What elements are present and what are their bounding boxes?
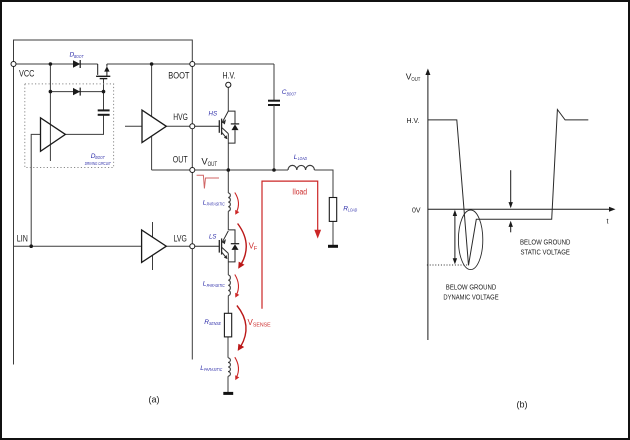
diode DBOOT — [73, 60, 80, 68]
diode D2 internal — [73, 88, 80, 96]
ground under RLOAD — [328, 245, 338, 248]
wire internal diode row — [50, 91, 103, 93]
svg-text:OUT: OUT — [411, 77, 420, 83]
svg-text:BOOT: BOOT — [95, 155, 105, 160]
wire RSENSE to Lpar3 — [227, 337, 229, 358]
static voltage lower arrow — [510, 225, 512, 233]
dbot driving circuit dashed box — [25, 84, 114, 168]
node dot OUT-HS — [227, 168, 231, 172]
red arc VSENSE at RSENSE — [237, 306, 246, 347]
wire LVG buffer supply stub — [152, 222, 154, 270]
wire HS source to OUT node — [227, 137, 229, 171]
svg-text:Iload: Iload — [292, 188, 307, 197]
node dot BOOT rail — [150, 62, 154, 66]
IC package outline (open bottom) — [14, 40, 193, 365]
red spike glyph at OUT — [197, 175, 219, 188]
inductor Lparasitic3 — [228, 358, 230, 376]
svg-text:0V: 0V — [412, 207, 421, 214]
terminal BOOT pin — [190, 62, 195, 67]
svg-text:BELOW GROUND: BELOW GROUND — [446, 285, 496, 292]
svg-text:SENSE: SENSE — [209, 321, 222, 326]
svg-text:LOAD: LOAD — [348, 208, 358, 213]
x axis — [428, 208, 613, 210]
y axis arrowhead — [425, 69, 430, 76]
wire capacitor C1 bottom to U1 output — [65, 115, 103, 134]
svg-text:H.V.: H.V. — [223, 71, 236, 81]
svg-text:LOAD: LOAD — [298, 156, 308, 161]
transistor HS — [192, 111, 235, 143]
terminal HVG pin — [190, 124, 195, 129]
svg-text:BOOT: BOOT — [168, 71, 190, 81]
wire H.V. terminal to HS drain — [227, 87, 229, 111]
ground under Lparasitic3 — [223, 392, 233, 395]
waveform trace — [428, 110, 588, 266]
dotted minimum level line — [427, 264, 469, 266]
svg-text:DYNAMIC VOLTAGE: DYNAMIC VOLTAGE — [443, 295, 498, 302]
red arc VF at LS — [238, 224, 247, 265]
dynamic voltage double arrow — [454, 212, 456, 262]
diode HS body — [231, 124, 239, 130]
terminal OUT pin — [190, 168, 195, 173]
svg-text:LVG: LVG — [174, 233, 187, 243]
wire HVG input stub — [125, 125, 142, 127]
wire HVG buffer supply rail BOOT to OUT — [151, 64, 153, 170]
wire OUT rail — [152, 169, 288, 171]
inductor Lparasitic1 — [228, 193, 230, 211]
wire Lpar2 to RSENSE — [227, 296, 229, 314]
svg-text:SENSE: SENSE — [253, 323, 271, 329]
resistor RSENSE — [224, 313, 231, 337]
wire LIN input riser to U1 — [31, 134, 40, 246]
svg-text:LIN: LIN — [17, 233, 28, 243]
svg-text:(b): (b) — [517, 400, 528, 410]
node dot gate junction — [102, 90, 106, 94]
wire CBOOT top drop — [273, 64, 275, 100]
wire LIN horizontal — [14, 245, 142, 247]
wire CBOOT bottom to OUT rail — [273, 105, 275, 170]
ellipse highlight on dip — [458, 210, 482, 270]
wire LVG output to pin — [166, 245, 192, 247]
wire OUT rail right of LLOAD — [314, 170, 333, 198]
red arc at Lparasitic1 — [235, 193, 239, 213]
svg-text:H.V.: H.V. — [407, 118, 420, 125]
op-amp U1 driving-circuit buffer — [41, 118, 66, 152]
wire Lpar3 to ground — [227, 376, 229, 392]
node dot diode row left — [49, 90, 53, 94]
terminal VCC — [11, 62, 16, 67]
svg-text:STATIC VOLTAGE: STATIC VOLTAGE — [521, 250, 571, 257]
svg-text:F: F — [254, 246, 258, 252]
svg-text:OUT: OUT — [208, 161, 218, 168]
svg-text:HS: HS — [209, 111, 218, 118]
svg-text:PARASITIC: PARASITIC — [207, 283, 226, 288]
wire node to capacitor C1 top — [103, 92, 105, 110]
wire VCC branch down to internal diode — [49, 64, 51, 92]
wire OUT node down to Lpar1 — [227, 170, 229, 193]
wire VCC rail to BOOT — [14, 63, 275, 65]
op-amp U2 HVG buffer — [142, 110, 166, 142]
svg-text:BELOW GROUND: BELOW GROUND — [520, 240, 570, 247]
terminal LVG pin — [190, 244, 195, 249]
svg-text:PARASITIC: PARASITIC — [204, 367, 223, 372]
node dot VCC branch — [49, 62, 53, 66]
y axis — [427, 72, 429, 340]
svg-text:BOOT: BOOT — [74, 54, 84, 59]
svg-text:t: t — [607, 219, 609, 226]
svg-text:DRIVING CIRCUIT: DRIVING CIRCUIT — [85, 161, 112, 166]
svg-text:BOOT: BOOT — [287, 91, 297, 96]
wire LS source to Lpar2 — [227, 255, 229, 275]
red arc at Lparasitic3 — [235, 357, 239, 377]
graph b axes — [428, 72, 613, 340]
svg-text:HVG: HVG — [173, 112, 188, 122]
transistor LS — [192, 230, 235, 262]
svg-text:VCC: VCC — [19, 69, 35, 79]
op-amp U3 LVG buffer — [142, 230, 167, 263]
static voltage upper arrow — [510, 170, 512, 204]
svg-text:LS: LS — [209, 233, 217, 240]
wire buffer supply stub through U1 — [49, 92, 51, 161]
svg-text:OUT: OUT — [173, 155, 188, 165]
x axis arrowhead — [609, 207, 616, 212]
resistor RLOAD — [329, 198, 336, 222]
red Iload loop horizontal+down arrow — [262, 181, 318, 309]
wire gate of Q1 down to node — [103, 79, 105, 92]
capacitor C1 — [98, 110, 110, 114]
svg-text:(a): (a) — [149, 395, 160, 405]
wire HVG output to pin — [166, 125, 192, 127]
svg-text:PARASITIC: PARASITIC — [207, 202, 226, 207]
capacitor CBOOT — [268, 101, 280, 105]
red arc at Lparasitic2 — [235, 275, 239, 295]
node dot LIN — [29, 244, 33, 248]
diode LS body — [231, 244, 239, 250]
wire Lpar1 to LS drain — [227, 211, 229, 230]
node dot OUT-CBOOT — [272, 168, 276, 172]
terminal H.V. — [226, 82, 231, 87]
transistor Q1 bootstrap PMOS — [96, 64, 110, 79]
inductor Lparasitic2 — [228, 275, 230, 296]
inductor LLOAD — [288, 165, 314, 170]
wire RLOAD to ground — [332, 221, 334, 245]
